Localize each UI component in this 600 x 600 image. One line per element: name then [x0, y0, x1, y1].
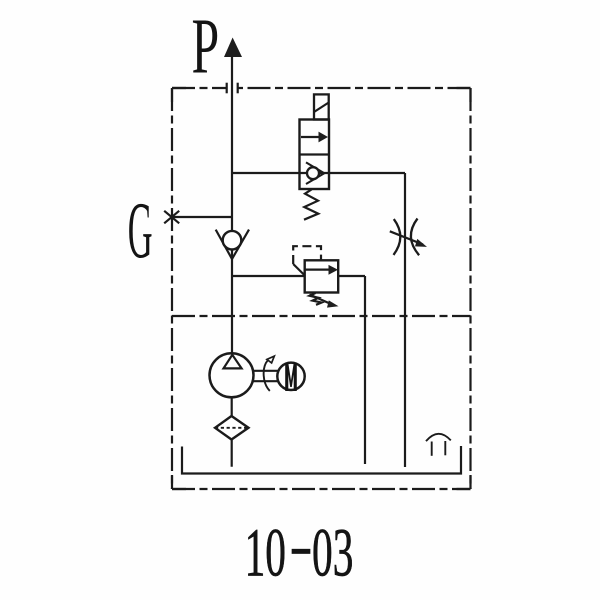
wire G port to main line — [172, 216, 232, 218]
enclosure border bottom (dash-dot) — [172, 488, 471, 490]
pump P1 triangle — [224, 355, 242, 369]
motor shaft — [253, 371, 277, 381]
enclosure border corner reinforcements — [172, 88, 471, 489]
model label 10-03 — [245, 515, 354, 591]
wire P main vertical (upper) — [231, 56, 233, 231]
port P arrow — [224, 38, 242, 58]
enclosure border top (dash-dot) — [172, 87, 471, 89]
boundary crossing ticks at P line — [227, 83, 238, 94]
pump P1 circle — [210, 353, 254, 397]
motor M1 circle — [277, 363, 304, 390]
solenoid valve V1 flow arrow (upper position) — [301, 132, 328, 143]
wire right branch down to tank — [404, 173, 406, 467]
motor M1 letter M — [285, 363, 297, 391]
relief valve RV1 body — [305, 260, 339, 292]
svg-text:G: G — [128, 187, 153, 275]
check valve CV1 seat — [216, 230, 249, 259]
filter F1 mesh dashed line — [215, 427, 249, 429]
svg-text:P: P — [192, 3, 220, 90]
enclosure border left (dash-dot) — [171, 88, 173, 489]
solenoid valve V1 spring — [304, 189, 318, 219]
internal partition line (dash-dot) — [172, 315, 471, 317]
throttle valve FL1 adjustment arrow — [390, 231, 427, 247]
wire relief return down to tank — [364, 276, 366, 464]
solenoid valve V1 check seat (lower position) — [306, 162, 324, 184]
tank breather — [426, 434, 451, 456]
wire relief valve output — [338, 275, 365, 277]
solenoid valve V1 coil box — [314, 94, 329, 119]
wire P main vertical (lower) — [231, 249, 233, 355]
gauge port X symbol — [164, 211, 179, 224]
tank outline — [182, 446, 461, 474]
solenoid valve V1 body — [300, 120, 330, 190]
solenoid valve V1 check ball — [307, 167, 319, 179]
filter F1 diamond — [215, 416, 249, 440]
svg-text:10: 10 — [245, 515, 286, 591]
enclosure border right (dash-dot) — [469, 88, 471, 489]
relief valve RV1 pilot line — [293, 246, 321, 275]
relief valve RV1 spring — [310, 293, 322, 305]
relief valve RV1 adjustment arrow — [310, 295, 339, 308]
wire relief valve input — [232, 275, 305, 277]
relief valve RV1 flow arrow — [305, 265, 338, 275]
throttle valve FL1 arcs — [394, 219, 420, 256]
check valve CV1 ball — [223, 231, 242, 250]
wire pump to filter to tank — [231, 398, 233, 467]
svg-text:03: 03 — [312, 515, 353, 591]
rotation arrow — [264, 356, 275, 391]
wire solenoid valve branch (horizontal) — [232, 172, 405, 174]
